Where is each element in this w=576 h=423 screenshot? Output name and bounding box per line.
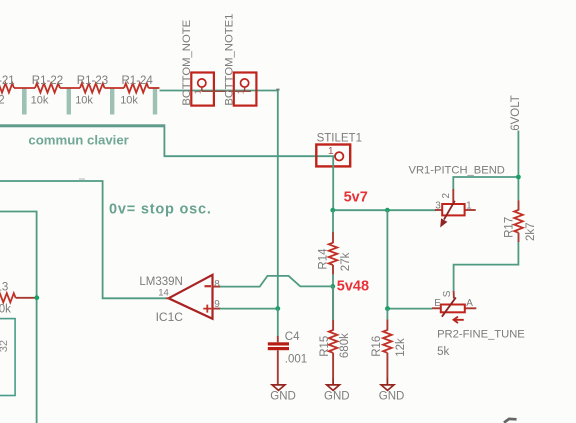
- wire: junction to PR2 E pin: [387, 308, 432, 310]
- resistor R1-22 10k: [35, 83, 80, 92]
- svg-text:14: 14: [158, 287, 169, 298]
- potentiometer VR1: [435, 189, 476, 226]
- faint dash artifact: [79, 178, 85, 180]
- svg-text:27k: 27k: [340, 252, 352, 271]
- resistor R17 2k7: [504, 200, 537, 242]
- svg-text:6VOLT: 6VOLT: [510, 95, 522, 131]
- wire: op-amp output net (left): [0, 181, 166, 298]
- svg-text:680k: 680k: [339, 333, 351, 358]
- svg-text:0v= stop osc.: 0v= stop osc.: [109, 202, 212, 218]
- svg-text:GND: GND: [324, 390, 350, 402]
- ground GND under R16: [379, 378, 405, 402]
- svg-text:C4: C4: [285, 331, 300, 343]
- svg-text:1: 1: [466, 200, 472, 211]
- resistor R16 12k: [371, 309, 407, 378]
- svg-text:2: 2: [441, 193, 452, 199]
- svg-text:5k: 5k: [437, 346, 449, 358]
- wire: teal above R15: [332, 286, 334, 320]
- op-amp IC1C LM339N: [139, 275, 220, 324]
- wire: bus elbow down then right to STILET1: [164, 127, 334, 156]
- wire: bus stub 2: [67, 88, 71, 115]
- svg-text:R15: R15: [319, 336, 331, 357]
- svg-text:S: S: [442, 290, 453, 297]
- wire: vertical from 5v7 to R16 junction: [386, 210, 388, 308]
- svg-text:3: 3: [435, 200, 441, 211]
- svg-text:12k: 12k: [395, 338, 407, 357]
- junction dot at (333,210): [330, 208, 335, 213]
- svg-text:5v7: 5v7: [344, 190, 368, 206]
- svg-text:-21: -21: [0, 75, 15, 87]
- wire: pin8 net with hop over vertical, to 5v48: [220, 276, 333, 287]
- svg-text:10k: 10k: [31, 95, 49, 107]
- svg-text:R14: R14: [318, 248, 330, 270]
- svg-text:2: 2: [0, 95, 5, 107]
- svg-text:A: A: [466, 298, 473, 309]
- bottom-right gray mark: [504, 419, 517, 423]
- frame box bottom-left: [0, 319, 15, 396]
- svg-text:32: 32: [0, 340, 10, 352]
- svg-text:10k: 10k: [0, 304, 11, 316]
- junction dot at (518,177): [516, 175, 521, 180]
- wire: 5v7 horizontal net: [333, 209, 436, 211]
- wire: small teal segments around R14: [332, 210, 334, 232]
- capacitor C4 .001: [268, 309, 307, 385]
- svg-text:1: 1: [236, 89, 246, 94]
- svg-text:-13: -13: [0, 282, 8, 294]
- wire: vertical net x=277.8 from top wire down to pin9 junction: [277, 91, 279, 309]
- wire: bus stub 4: [153, 88, 157, 115]
- junction dot at (387.5,308.6): [385, 306, 390, 311]
- svg-text:IC1C: IC1C: [156, 310, 184, 324]
- svg-text:R1-22: R1-22: [32, 75, 63, 87]
- svg-text:PR2-FINE_TUNE: PR2-FINE_TUNE: [437, 328, 525, 340]
- svg-text:1: 1: [328, 146, 334, 157]
- svg-text:2k7: 2k7: [525, 222, 537, 241]
- svg-text:R1-23: R1-23: [77, 75, 108, 87]
- wire: left net into node A: [0, 212, 37, 423]
- svg-text:VR1-PITCH_BEND: VR1-PITCH_BEND: [409, 165, 505, 177]
- wire: pin9 net to junction: [220, 308, 278, 310]
- resistor R1-21 (partial at left edge): [0, 83, 35, 92]
- wire: 6VOLT vertical: [517, 131, 519, 201]
- resistor R1-13 partial at left edge: [0, 282, 35, 316]
- svg-text:commun clavier: commun clavier: [28, 132, 128, 147]
- svg-text:10k: 10k: [75, 95, 93, 107]
- resistor R15 680k: [319, 286, 351, 378]
- junction dot at (277.8,308.6): [275, 306, 280, 311]
- resistor R1-24 10k: [124, 83, 160, 92]
- trimmer PR2-FINE_TUNE 5k: [432, 290, 525, 358]
- svg-text:1: 1: [193, 89, 203, 94]
- svg-text:10k: 10k: [120, 95, 138, 107]
- svg-text:R16: R16: [371, 336, 383, 357]
- wire: R17 bottom elbow to PR2 S pin: [454, 242, 519, 291]
- svg-text:GND: GND: [270, 390, 296, 402]
- ground GND under R15: [324, 378, 350, 402]
- corner origin mark at wire elbow: [276, 89, 279, 91]
- ground GND under C4: [270, 385, 296, 402]
- svg-text:.001: .001: [285, 353, 307, 365]
- svg-text:8: 8: [214, 279, 220, 290]
- junction dot at (332.8,286.4): [330, 284, 335, 289]
- connector BOTTOM_NOTE1: [223, 14, 256, 106]
- connector BOTTOM_NOTE: [181, 19, 226, 105]
- svg-text:LM339N: LM339N: [139, 276, 182, 288]
- resistor R14 27k: [318, 232, 352, 275]
- resistor R1-23 10k: [80, 83, 124, 92]
- wire: STILET1 down to 5v7 node: [332, 157, 334, 210]
- wire: 6VOLT node horizontal to VR1 pin2 elbow: [453, 177, 518, 189]
- wire: keyboard bus thick line "commun clavier": [0, 124, 165, 127]
- svg-text:5v48: 5v48: [337, 278, 369, 294]
- wire: top net from resistor chain to vertical drop: [160, 90, 278, 92]
- svg-text:BOTTOM_NOTE: BOTTOM_NOTE: [181, 19, 193, 105]
- junction dot at (387,210): [385, 208, 390, 213]
- wire: bus stub 1: [22, 88, 27, 115]
- junction dot at (36.8,297.7): [34, 295, 39, 300]
- svg-text:R1-24: R1-24: [122, 75, 154, 87]
- svg-text:GND: GND: [379, 390, 405, 402]
- svg-text:BOTTOM_NOTE1: BOTTOM_NOTE1: [223, 14, 235, 106]
- svg-text:R17: R17: [504, 217, 516, 238]
- connector STILET1: [316, 132, 362, 166]
- wire: bus stub 3: [110, 88, 114, 115]
- svg-text:STILET1: STILET1: [317, 132, 362, 144]
- svg-text:E: E: [434, 298, 441, 309]
